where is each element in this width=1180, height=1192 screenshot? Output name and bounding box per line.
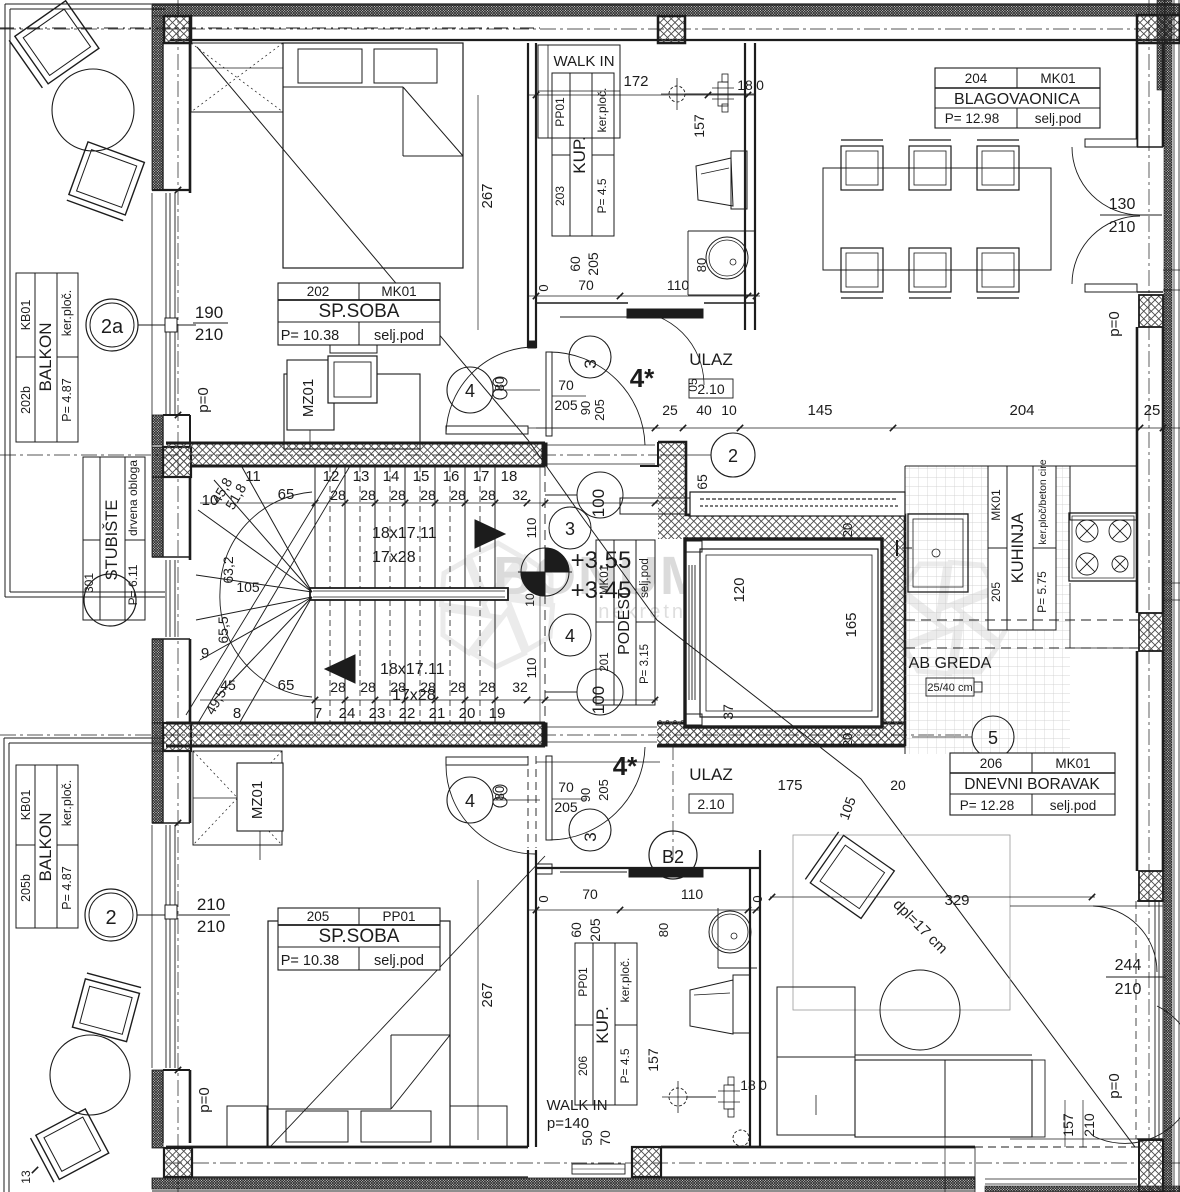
svg-text:70: 70: [578, 277, 594, 293]
svg-text:P= 12.98: P= 12.98: [945, 111, 999, 126]
table KUP 206: [575, 943, 637, 1105]
wall KUP-dining: [744, 43, 746, 330]
svg-text:20: 20: [890, 777, 906, 793]
svg-text:204: 204: [1009, 402, 1034, 419]
svg-text:32: 32: [512, 487, 528, 503]
svg-text:MK01: MK01: [599, 565, 611, 595]
entry door top arcs: [549, 352, 645, 445]
balcony round table bottom: [50, 1035, 130, 1115]
svg-text:21: 21: [429, 705, 446, 722]
svg-text:14: 14: [383, 468, 400, 485]
stair walk line arc: [220, 492, 312, 697]
bed 205: [268, 921, 450, 1147]
tick marks left wall: [175, 187, 181, 193]
column top-mid: [658, 16, 685, 43]
right wall door244 glazing: [1154, 901, 1156, 1139]
circle 100 upper: [577, 472, 623, 518]
bottom wall column mid: [632, 1147, 661, 1177]
svg-text:P= 5.75: P= 5.75: [1035, 571, 1049, 613]
svg-text:BALKON: BALKON: [36, 813, 55, 882]
svg-text:MZ01: MZ01: [300, 379, 317, 417]
left wall chunk below stair band: [152, 477, 163, 557]
circle 100 lower: [577, 669, 623, 715]
svg-text:70: 70: [597, 1130, 613, 1146]
svg-text:4: 4: [465, 381, 475, 401]
svg-text:50: 50: [579, 1130, 595, 1146]
table SP.SOBA 202: [278, 283, 440, 345]
svg-text:110: 110: [667, 277, 690, 293]
left wall chunk mid: [152, 415, 163, 445]
svg-text:WALK IN: WALK IN: [553, 53, 614, 70]
dining table: [823, 168, 1051, 270]
closet bottom dotted: [193, 751, 282, 845]
svg-text:ker.ploč.: ker.ploč.: [595, 88, 609, 133]
circle 2: [85, 889, 137, 941]
svg-text:selj.pod: selj.pod: [1050, 798, 1097, 813]
svg-text:18x17.11: 18x17.11: [372, 525, 437, 542]
axis dash-dot stair band: [0, 454, 658, 456]
svg-text:80: 80: [656, 923, 671, 937]
entry door leaf bottom: [546, 756, 552, 840]
svg-text:206: 206: [576, 1056, 590, 1076]
svg-text:KUHINJA: KUHINJA: [1009, 513, 1027, 584]
dining chairs bottom row: [841, 248, 883, 292]
svg-text:selj.pod: selj.pod: [1035, 111, 1082, 126]
stair bottom band door opening: [547, 726, 657, 728]
stair winder lines lower: [196, 597, 312, 620]
svg-text:210: 210: [197, 917, 225, 936]
right wall lower segment: [1136, 651, 1139, 871]
svg-text:SP.SOBA: SP.SOBA: [319, 301, 400, 322]
nightstand left 205: [227, 1106, 267, 1147]
svg-text:90: 90: [578, 401, 593, 415]
svg-text:PP01: PP01: [382, 909, 415, 924]
balcony table round: [52, 69, 134, 151]
level benchmark symbol: [545, 548, 569, 572]
dim row ULAZ: [528, 427, 1180, 429]
svg-text:90: 90: [578, 788, 593, 802]
svg-text:ker.ploč/beton cire: ker.ploč/beton cire: [1037, 459, 1049, 544]
svg-text:BLAGOVAONICA: BLAGOVAONICA: [954, 91, 1080, 108]
table BLAGOVAONICA: [935, 68, 1100, 128]
wall bedroom-bath bottom: [527, 850, 529, 1147]
svg-text:329: 329: [944, 892, 969, 909]
wall bedroom-KUP top: [527, 43, 529, 348]
svg-text:201: 201: [599, 652, 611, 671]
right wall door130 leaves: [1085, 139, 1137, 147]
svg-text:P= 3.15: P= 3.15: [639, 644, 651, 684]
dining chairs top row: [841, 146, 883, 190]
bed 205 fold: [390, 1035, 392, 1109]
section line diagonal main: [197, 47, 1135, 1147]
left wall insulation upper: [152, 16, 163, 190]
svg-text:selj.pod: selj.pod: [374, 328, 424, 344]
svg-text:MK01: MK01: [381, 284, 416, 299]
bottom door leaf walkin: [572, 1164, 625, 1174]
bedroom door bottom: [446, 757, 528, 765]
walkin wardrobe top: [538, 45, 620, 138]
roof overhang dashed line top: [0, 27, 540, 29]
table BALKON 202b: [16, 273, 78, 442]
right wall col above door244: [1139, 871, 1163, 901]
right wall mid segment: [1136, 327, 1139, 613]
right wall col below door: [1137, 291, 1163, 293]
left wall window top (balcony door): [165, 193, 167, 415]
svg-text:23: 23: [369, 705, 386, 722]
svg-text:267: 267: [479, 183, 496, 208]
svg-text:P= 4.5: P= 4.5: [595, 178, 609, 213]
shelf 202: [330, 345, 377, 353]
bed pillows: [298, 49, 362, 83]
svg-text:13: 13: [19, 1170, 33, 1184]
bed 202: [283, 43, 463, 268]
svg-text:210: 210: [1109, 219, 1136, 236]
living round table: [880, 970, 960, 1050]
left wall chunk below lower band: [152, 751, 163, 823]
svg-text:65: 65: [278, 486, 295, 503]
svg-text:3: 3: [565, 519, 575, 539]
svg-text:0: 0: [750, 895, 765, 902]
svg-text:63,2: 63,2: [220, 556, 236, 583]
balcony chair top: [9, 1, 99, 88]
bedroom door leaf top: [446, 426, 528, 434]
entry threshold: [536, 427, 660, 429]
svg-text:205b: 205b: [19, 874, 33, 902]
svg-text:202: 202: [307, 284, 330, 299]
bath door top: [627, 309, 703, 318]
svg-text:32: 32: [512, 679, 528, 695]
svg-text:5: 5: [988, 728, 998, 748]
svg-text:28: 28: [450, 679, 466, 695]
svg-text:28: 28: [480, 679, 496, 695]
svg-text:172: 172: [623, 73, 648, 90]
column top-right: [1137, 15, 1180, 43]
cabinet MZ01 205: [237, 763, 283, 831]
svg-text:205: 205: [989, 582, 1003, 602]
table PODEST: [596, 540, 655, 705]
svg-text:110: 110: [524, 518, 539, 539]
bed fold: [403, 87, 463, 156]
elevator interior: [685, 539, 882, 727]
svg-text:WALK IN: WALK IN: [546, 1097, 607, 1114]
svg-text:157: 157: [691, 114, 707, 138]
axis dash-dot bottom wall: [166, 1162, 1180, 1164]
circle 3 grid: [549, 507, 591, 549]
balcony chair bottom: [67, 142, 145, 221]
svg-text:MK01: MK01: [989, 489, 1003, 521]
left wall column at lower stair band: [163, 723, 191, 751]
stair dim line lower: [200, 699, 658, 701]
svg-text:P= 12.28: P= 12.28: [960, 798, 1014, 813]
left wall column at stair band: [163, 447, 191, 477]
washbasin top: [706, 237, 748, 279]
circle 5: [972, 716, 1014, 758]
svg-text:17x28: 17x28: [372, 549, 416, 566]
left wall body upper: [162, 43, 164, 190]
svg-text:P= 10.38: P= 10.38: [281, 953, 339, 969]
svg-text:3: 3: [581, 359, 600, 368]
circle 4 grid: [549, 614, 591, 656]
shower head bottom: [669, 1088, 687, 1106]
svg-text:70: 70: [558, 779, 574, 795]
stair top band door opening: [547, 444, 655, 446]
svg-text:202b: 202b: [19, 386, 33, 414]
entry door leaf top: [546, 352, 552, 436]
svg-text:2: 2: [728, 446, 738, 466]
svg-text:4*: 4*: [630, 363, 655, 393]
bath axis dash-dot bottom: [672, 746, 674, 864]
svg-text:PODEST: PODEST: [616, 589, 633, 655]
nightstand right 205: [450, 1106, 507, 1147]
svg-text:BALKON: BALKON: [36, 323, 55, 392]
svg-text:20: 20: [840, 523, 855, 537]
svg-text:18x17.11: 18x17.11: [380, 661, 445, 678]
svg-text:205: 205: [585, 252, 601, 276]
dim line top bath: [528, 295, 760, 297]
svg-text:28: 28: [360, 487, 376, 503]
toilet bottom: [690, 980, 733, 1034]
elevator shaft outline: [658, 442, 905, 745]
svg-text:P= 4.87: P= 4.87: [60, 866, 74, 909]
svg-text:28: 28: [330, 487, 346, 503]
svg-text:25: 25: [1144, 402, 1161, 419]
right wall axis dash-dot: [1148, 0, 1150, 1192]
svg-text:60: 60: [568, 922, 584, 938]
svg-text:10: 10: [721, 402, 737, 418]
right wall bottom corner column: [1137, 1138, 1163, 1140]
svg-text:19: 19: [489, 705, 506, 722]
svg-text:p=0: p=0: [1106, 311, 1123, 336]
circle 3 top: [569, 336, 611, 378]
svg-text:130: 130: [1109, 196, 1136, 213]
svg-text:KUP.: KUP.: [593, 1006, 612, 1044]
svg-text:28: 28: [420, 487, 436, 503]
bottom wall fine hatch strip: [152, 1178, 975, 1189]
elevator door rails: [688, 565, 690, 700]
right wall upper segment: [1136, 43, 1139, 147]
svg-text:2.10: 2.10: [697, 381, 724, 397]
svg-text:KB01: KB01: [19, 790, 33, 821]
svg-text:2: 2: [105, 907, 116, 929]
svg-text:2a: 2a: [101, 316, 124, 338]
stair winder lines upper: [242, 467, 312, 592]
left wall window bottom bedroom: [165, 825, 167, 1068]
svg-text:10: 10: [202, 492, 219, 509]
svg-text:205: 205: [307, 909, 330, 924]
left wall window stair lower: [165, 560, 167, 637]
svg-text:267: 267: [479, 982, 496, 1007]
svg-text:244: 244: [1115, 957, 1142, 974]
table STUBISTE: [83, 457, 145, 620]
svg-text:MK01: MK01: [1040, 71, 1075, 86]
cabinet MZ01 202: [287, 360, 334, 430]
right wall door130 arcs: [1072, 147, 1140, 215]
section line diagonal lower bedroom: [270, 856, 545, 1147]
svg-text:28: 28: [390, 487, 406, 503]
staircase lower flight step lines: [314, 600, 316, 723]
bath top bottom wall: [536, 302, 628, 304]
svg-text:drvena obloga: drvena obloga: [126, 460, 140, 536]
svg-text:11: 11: [245, 468, 261, 485]
svg-text:110: 110: [524, 658, 539, 679]
svg-text:65: 65: [278, 677, 295, 694]
svg-text:0: 0: [756, 77, 764, 93]
svg-text:17: 17: [473, 468, 490, 485]
watermark logo: [428, 534, 1020, 686]
staircase upper flight dashed step edges: [329, 466, 331, 588]
svg-text:28: 28: [450, 487, 466, 503]
svg-text:2.10: 2.10: [697, 796, 724, 812]
table KUHINJA: [988, 466, 1056, 630]
svg-text:100: 100: [589, 489, 608, 517]
right wall insulation strip: [1164, 0, 1172, 1192]
stair top wall band: [166, 443, 542, 466]
svg-text:B2: B2: [662, 847, 684, 867]
circle 4 door top: [447, 367, 493, 413]
balcony chair bottom-top: [72, 973, 141, 1042]
svg-text:KUP.: KUP.: [570, 136, 589, 174]
kitchen counter edge: [904, 466, 906, 754]
svg-text:25: 25: [662, 402, 678, 418]
svg-text:13: 13: [353, 468, 370, 485]
svg-text:60: 60: [567, 256, 583, 272]
bed 205 pillows: [286, 1111, 348, 1142]
svg-text:205: 205: [592, 399, 607, 421]
bottom wall left corner column: [164, 1148, 192, 1177]
svg-text:P= 6.11: P= 6.11: [126, 564, 140, 605]
svg-text:p=140: p=140: [547, 1115, 589, 1132]
svg-text:70: 70: [558, 377, 574, 393]
svg-text:28: 28: [390, 679, 406, 695]
svg-text:175: 175: [777, 777, 802, 794]
bottom terrace door: [975, 1146, 1140, 1148]
circle section mark stair: [84, 574, 136, 626]
svg-text:4: 4: [465, 791, 475, 811]
balcony chair bottom-bottom: [31, 1109, 109, 1182]
toilet top: [696, 158, 733, 206]
kitchen tile grid: [905, 466, 1070, 754]
svg-text:210: 210: [1081, 1113, 1097, 1137]
svg-text:10: 10: [523, 593, 537, 607]
svg-text:4*: 4*: [613, 751, 638, 781]
living armchair rotated: [805, 832, 894, 919]
bath door bar bottom: [629, 868, 703, 877]
kitchen fridge: [1070, 466, 1137, 520]
svg-text:18: 18: [740, 1077, 756, 1093]
kitchen counter above shaft: [690, 492, 905, 516]
table SP.SOBA 205: [278, 908, 440, 970]
svg-text:65: 65: [694, 474, 710, 490]
svg-text:210: 210: [1115, 981, 1142, 998]
bath top wall bottom: [536, 867, 760, 869]
svg-text:204: 204: [965, 71, 988, 86]
washbasin bottom: [709, 911, 751, 953]
svg-text:205: 205: [554, 799, 578, 815]
svg-text:MZ01: MZ01: [249, 781, 266, 819]
svg-text:157: 157: [1060, 1113, 1076, 1137]
balcony top outline: [5, 3, 592, 5]
svg-text:203: 203: [553, 186, 567, 206]
bottom wall band mid: [661, 1146, 760, 1149]
svg-text:145: 145: [807, 402, 832, 419]
svg-text:ker.ploč.: ker.ploč.: [60, 780, 74, 827]
svg-text:3: 3: [581, 832, 600, 841]
svg-text:100: 100: [589, 686, 608, 714]
living rug: [793, 835, 1010, 1010]
svg-text:p=0: p=0: [1106, 1073, 1123, 1098]
svg-text:p=0: p=0: [195, 387, 212, 412]
svg-text:4: 4: [565, 626, 575, 646]
stair handrail center bar: [310, 588, 508, 600]
svg-text:190: 190: [195, 303, 223, 322]
svg-text:22: 22: [399, 705, 416, 722]
svg-text:SP.SOBA: SP.SOBA: [319, 926, 400, 947]
svg-text:205: 205: [587, 918, 603, 942]
svg-text:ker.ploč.: ker.ploč.: [60, 290, 74, 337]
AB GREDA size box: [926, 678, 974, 696]
svg-text:210: 210: [195, 325, 223, 344]
kitchen sink: [908, 514, 968, 592]
svg-text:28: 28: [330, 679, 346, 695]
circle 4 door bottom: [447, 777, 493, 823]
left wall bottom chunk: [163, 1069, 190, 1071]
circle B2: [649, 831, 697, 879]
axis dash-dot left wall: [177, 0, 179, 1192]
stair bottom wall band: [166, 723, 542, 746]
top exterior wall: [152, 3, 1180, 5]
svg-text:KB01: KB01: [19, 300, 33, 331]
corridor dashed wall line: [544, 466, 546, 723]
living sofa: [855, 1060, 1032, 1137]
svg-text:157: 157: [645, 1048, 661, 1072]
closet top-left dotted: [191, 43, 283, 112]
svg-text:ker.ploč.: ker.ploč.: [618, 958, 632, 1003]
svg-text:25/40 cm: 25/40 cm: [927, 682, 972, 694]
svg-text:MK01: MK01: [1055, 756, 1090, 771]
kitchen stove: [1069, 513, 1137, 581]
table DNEVNI BORAVAK: [950, 753, 1115, 815]
svg-text:24: 24: [339, 705, 356, 722]
svg-text:0: 0: [536, 284, 551, 291]
shower door handle arc: [733, 1130, 749, 1146]
svg-text:18: 18: [501, 468, 518, 485]
svg-text:110: 110: [681, 886, 704, 902]
svg-text:301: 301: [82, 573, 96, 593]
right wall door244 arcs: [1093, 906, 1157, 972]
svg-text:28: 28: [420, 679, 436, 695]
bottom wall band left: [166, 1146, 528, 1149]
svg-text:8: 8: [233, 705, 241, 722]
circle 2 grid kitchen: [711, 433, 755, 477]
svg-text:selj.pod: selj.pod: [639, 558, 651, 598]
svg-text:0: 0: [536, 895, 551, 902]
svg-text:70: 70: [582, 886, 598, 902]
faucet cluster top: [718, 82, 728, 106]
axis dash-dot lower band: [0, 734, 972, 736]
svg-text:165: 165: [843, 612, 860, 637]
shower head symbol top: [669, 86, 685, 102]
table BALKON 205b: [16, 765, 78, 928]
chair 202: [328, 356, 377, 403]
AB GREDA dashed beam: [905, 619, 1140, 621]
svg-text:P= 10.38: P= 10.38: [281, 328, 339, 344]
svg-text:12: 12: [323, 468, 340, 485]
svg-text:P= 4.87: P= 4.87: [60, 378, 74, 421]
right wall col kitchen: [1139, 613, 1163, 651]
svg-text:206: 206: [980, 756, 1003, 771]
svg-text:p=0: p=0: [196, 1087, 213, 1112]
svg-text:120: 120: [731, 577, 748, 602]
